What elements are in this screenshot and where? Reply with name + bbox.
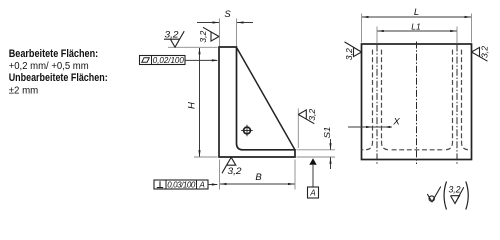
svg-text:3,2: 3,2 <box>199 30 208 43</box>
svg-text:H: H <box>187 102 198 109</box>
svg-text:X: X <box>392 117 400 128</box>
hidden base top edge <box>389 149 445 151</box>
perpendicularity feature control frame 0,03/100 A <box>154 180 218 190</box>
flatness feature control frame 0,02/100 <box>140 56 219 66</box>
general roughness note: check with circle <box>427 187 441 202</box>
svg-text:0,03/100: 0,03/100 <box>167 181 196 190</box>
dimension S <box>197 9 253 46</box>
dimension H <box>168 47 218 157</box>
datum A <box>308 158 319 198</box>
right view rectangle <box>362 44 472 160</box>
svg-text:0,02/100: 0,02/100 <box>153 56 185 65</box>
svg-text:A: A <box>309 189 315 198</box>
svg-text:3,2: 3,2 <box>165 30 180 41</box>
svg-text:S: S <box>224 9 231 20</box>
dimension L <box>362 7 472 43</box>
svg-text:3,2: 3,2 <box>345 48 354 61</box>
center line left rib <box>376 45 378 165</box>
roughness 3,2 top-left (on H extension) <box>164 30 184 48</box>
roughness 3,2 right view right face (apex left) <box>472 45 490 61</box>
dimension B <box>220 160 296 190</box>
dimension L1 <box>377 22 457 44</box>
roughness 3,2 bottom face (rotated 180) <box>222 157 242 177</box>
roughness 3,2 right end face (apex left) <box>298 108 317 148</box>
center line right rib <box>456 45 458 165</box>
svg-text:A: A <box>199 181 205 190</box>
close paren <box>466 182 468 210</box>
roughness 3,2 left face (apex right) <box>199 27 219 42</box>
svg-text:+0,2 mm/ +0,5 mm: +0,2 mm/ +0,5 mm <box>9 60 89 72</box>
svg-text:Bearbeitete Flächen:: Bearbeitete Flächen: <box>9 48 99 60</box>
svg-text:±2 mm: ±2 mm <box>9 85 39 97</box>
svg-text:S1: S1 <box>322 126 332 138</box>
hidden rib lines left pair <box>362 47 373 150</box>
front view bracket outline <box>219 47 295 157</box>
svg-text:Unbearbeitete Flächen:: Unbearbeitete Flächen: <box>9 72 108 84</box>
roughness 3,2 right view left face (apex right) <box>345 42 362 60</box>
roughness 3,2 inside parens <box>449 185 464 204</box>
rib hypotenuse <box>237 48 295 149</box>
hidden rib lines right pair <box>462 47 472 150</box>
svg-text:3,2: 3,2 <box>449 185 462 196</box>
svg-text:L1: L1 <box>411 22 421 32</box>
svg-text:3,2: 3,2 <box>481 45 490 58</box>
center mark <box>241 125 253 137</box>
center line middle <box>416 42 418 165</box>
svg-text:L: L <box>414 7 419 18</box>
note text block: machined surfaces tolerance <box>9 48 108 97</box>
svg-text:B: B <box>255 172 262 183</box>
dimension X <box>348 117 400 129</box>
svg-text:3,2: 3,2 <box>228 166 243 177</box>
dimension S1 <box>297 126 336 169</box>
open paren <box>444 182 446 210</box>
svg-text:3,2: 3,2 <box>308 108 317 121</box>
